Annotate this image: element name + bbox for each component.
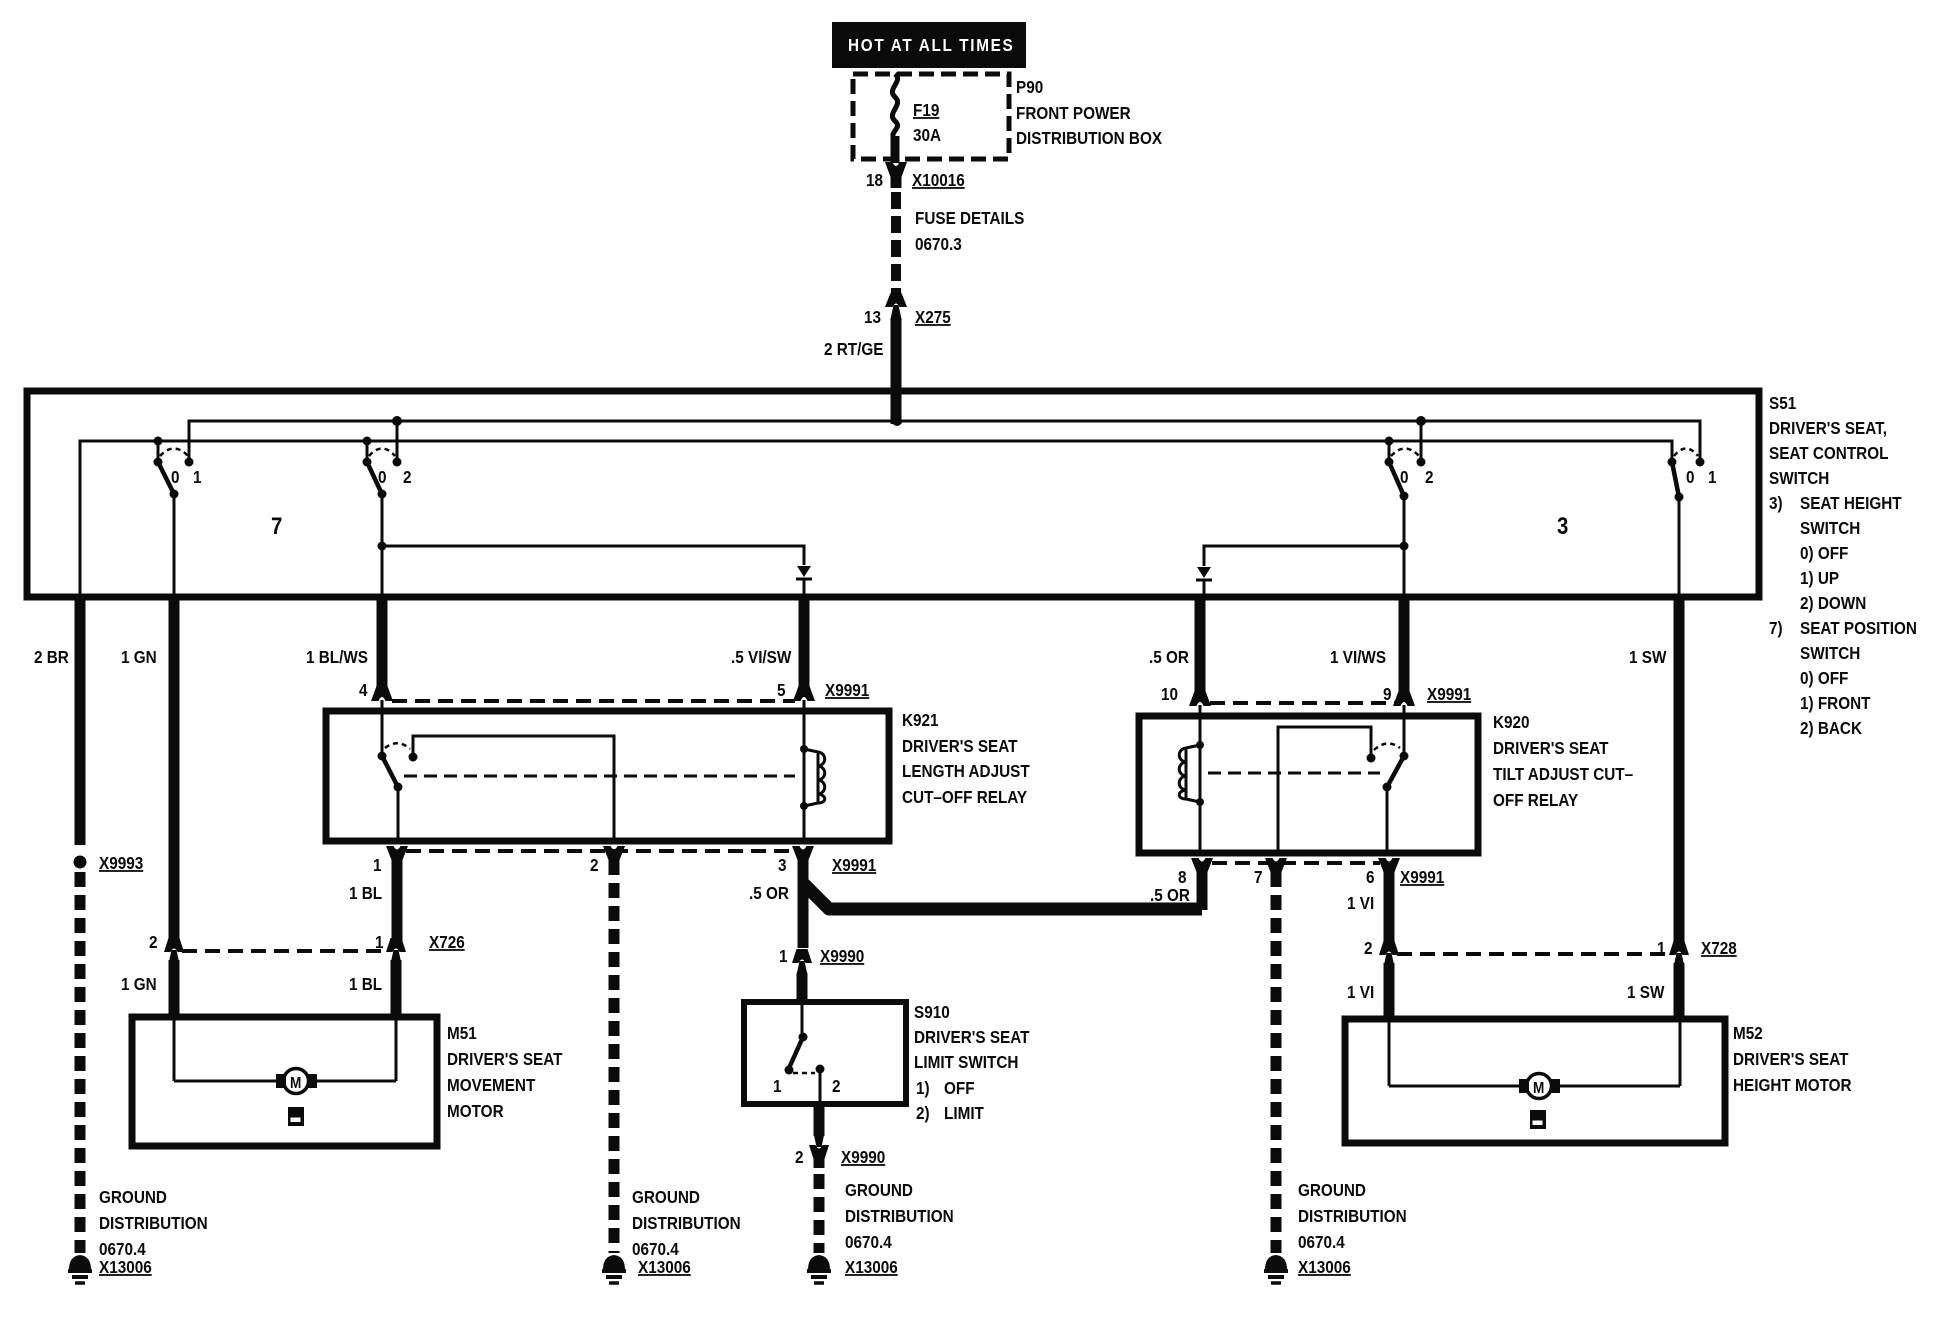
svg-text:2: 2 <box>590 855 599 875</box>
svg-text:1: 1 <box>1708 467 1717 487</box>
svg-text:.5 VI/SW: .5 VI/SW <box>731 647 792 667</box>
svg-text:0: 0 <box>1400 467 1409 487</box>
wire .5 OR cross-connect K921.3 to K920.8 <box>349 883 1202 909</box>
svg-text:SEAT HEIGHT: SEAT HEIGHT <box>1800 493 1902 513</box>
wire X9990.1 to S910 <box>797 973 808 1005</box>
svg-text:DISTRIBUTION: DISTRIBUTION <box>632 1213 741 1233</box>
svg-text:1 BL: 1 BL <box>349 883 382 903</box>
svg-text:CUT–OFF RELAY: CUT–OFF RELAY <box>902 787 1027 807</box>
limit switch S910 box <box>744 1002 906 1104</box>
svg-text:1 VI/WS: 1 VI/WS <box>1330 647 1386 667</box>
relay K921 actuation link (dashed) <box>404 775 795 778</box>
svg-text:13: 13 <box>864 307 881 327</box>
svg-text:2: 2 <box>1364 938 1373 958</box>
svg-text:3: 3 <box>1557 512 1568 539</box>
wire sw2 branch to diode <box>382 546 804 565</box>
connector X9990 pin 2 <box>795 1133 885 1167</box>
svg-text:GROUND: GROUND <box>1298 1180 1366 1200</box>
relay K920 actuation link (dashed) <box>1208 772 1380 775</box>
svg-text:DRIVER'S SEAT: DRIVER'S SEAT <box>447 1049 563 1069</box>
svg-text:6: 6 <box>1366 867 1375 887</box>
connector X728 pin 1 <box>1657 938 1737 967</box>
svg-text:S51: S51 <box>1769 393 1796 413</box>
wire S910 pin2 down <box>814 1104 825 1136</box>
svg-text:K921: K921 <box>902 710 939 730</box>
svg-text:SWITCH: SWITCH <box>1769 468 1829 488</box>
wire 1 VI lower <box>1347 963 1389 1022</box>
motor M51 <box>174 1020 396 1126</box>
connector X9991 pin 6 <box>1347 858 1444 948</box>
wire X726 dashed link <box>182 949 388 953</box>
node sw2 branch <box>378 542 387 551</box>
svg-text:2) DOWN: 2) DOWN <box>1800 593 1866 613</box>
svg-text:DRIVER'S SEAT: DRIVER'S SEAT <box>902 736 1018 756</box>
wire X9991 dashed link 10-9 <box>1210 701 1395 705</box>
svg-text:0: 0 <box>171 467 180 487</box>
relay K920 box <box>1139 716 1478 853</box>
svg-text:1: 1 <box>773 1076 782 1096</box>
svg-text:1 VI: 1 VI <box>1347 982 1374 1002</box>
svg-text:1: 1 <box>779 946 788 966</box>
svg-text:DRIVER'S SEAT,: DRIVER'S SEAT, <box>1769 418 1887 438</box>
connector X10016 pin 18 (female fork) <box>866 162 965 190</box>
svg-text:1 GN: 1 GN <box>121 974 157 994</box>
wire K920 pin7 ground (dashed) <box>1271 872 1282 1253</box>
wire S910 ground (dashed) <box>814 1157 825 1253</box>
diode (one-way) right <box>1196 567 1212 597</box>
relay K921 box <box>326 711 889 841</box>
svg-text:X13006: X13006 <box>845 1257 898 1277</box>
svg-text:4: 4 <box>359 680 368 700</box>
svg-text:1) UP: 1) UP <box>1800 568 1839 588</box>
connector X275 pin 13 (male arrow) <box>864 293 951 327</box>
svg-text:X13006: X13006 <box>638 1257 691 1277</box>
motor M52 box <box>1345 1019 1725 1143</box>
svg-text:2: 2 <box>149 932 158 952</box>
svg-text:7: 7 <box>271 512 282 539</box>
svg-text:SWITCH: SWITCH <box>1800 643 1860 663</box>
wire 1 BL lower <box>349 960 396 1020</box>
svg-text:LENGTH ADJUST: LENGTH ADJUST <box>902 761 1030 781</box>
switch S51.7 position switch pole B <box>363 421 412 597</box>
svg-text:OFF RELAY: OFF RELAY <box>1493 790 1578 810</box>
svg-text:2 RT/GE: 2 RT/GE <box>824 339 883 359</box>
component label S910 <box>914 1002 1030 1123</box>
relay K921 coil <box>800 745 825 838</box>
node line2-sw2 <box>363 437 372 446</box>
component label S51 legend <box>1769 393 1917 738</box>
svg-text:LIMIT: LIMIT <box>944 1103 985 1123</box>
wire 2 BR <box>34 594 80 845</box>
svg-text:3): 3) <box>1769 493 1783 513</box>
svg-text:FUSE DETAILS: FUSE DETAILS <box>915 208 1024 228</box>
svg-text:SWITCH: SWITCH <box>1800 518 1860 538</box>
svg-text:DISTRIBUTION BOX: DISTRIBUTION BOX <box>1016 128 1162 148</box>
svg-text:30A: 30A <box>913 125 941 145</box>
svg-text:7): 7) <box>1769 618 1783 638</box>
wire X728 dashed link <box>1397 952 1671 956</box>
wire 2 BR ground (dashed) <box>75 872 86 1253</box>
svg-text:HEIGHT MOTOR: HEIGHT MOTOR <box>1733 1075 1852 1095</box>
svg-text:MOTOR: MOTOR <box>447 1101 504 1121</box>
bus wire line2 (ground return) <box>80 441 1672 597</box>
svg-text:18: 18 <box>866 170 883 190</box>
svg-text:1 SW: 1 SW <box>1627 982 1665 1002</box>
svg-text:X726: X726 <box>429 932 465 952</box>
wire X9991 dashed link 4-5 <box>392 699 795 703</box>
motor M51 box <box>132 1017 437 1146</box>
ground symbol 2BR column <box>68 1255 92 1283</box>
svg-text:HOT AT ALL TIMES: HOT AT ALL TIMES <box>848 35 1014 55</box>
svg-text:X13006: X13006 <box>1298 1257 1351 1277</box>
switch S51.7 position switch pole A <box>154 441 202 597</box>
power source label HOT AT ALL TIMES <box>832 22 1026 68</box>
svg-text:.5 OR: .5 OR <box>1149 647 1189 667</box>
svg-text:5: 5 <box>777 680 786 700</box>
svg-text:1: 1 <box>373 855 382 875</box>
svg-text:M52: M52 <box>1733 1023 1763 1043</box>
svg-text:X9990: X9990 <box>841 1147 885 1167</box>
svg-text:SEAT POSITION: SEAT POSITION <box>1800 618 1917 638</box>
switch S910 blade <box>773 1005 841 1101</box>
ground symbol S910 column <box>807 1255 831 1283</box>
svg-text:X275: X275 <box>915 307 951 327</box>
svg-text:SEAT CONTROL: SEAT CONTROL <box>1769 443 1888 463</box>
svg-text:FRONT POWER: FRONT POWER <box>1016 103 1131 123</box>
svg-text:GROUND: GROUND <box>99 1187 167 1207</box>
connector X9991 pin 4 <box>359 680 393 756</box>
svg-text:0) OFF: 0) OFF <box>1800 668 1848 688</box>
svg-text:1 GN: 1 GN <box>121 647 157 667</box>
connector X9991 pin 10 <box>1161 684 1211 745</box>
connector X9991 pin 1 <box>373 846 408 945</box>
svg-text:1: 1 <box>193 467 202 487</box>
svg-text:2 BR: 2 BR <box>34 647 69 667</box>
switch S51.3 height switch pole A <box>1385 421 1434 597</box>
wire 1 SW <box>1629 594 1679 947</box>
wire 1 GN upper <box>121 594 174 945</box>
connector X9991 pin 2 <box>590 846 625 875</box>
svg-text:X9991: X9991 <box>832 855 876 875</box>
wire 1 VI/WS <box>1330 594 1404 693</box>
svg-text:M51: M51 <box>447 1023 477 1043</box>
svg-text:3: 3 <box>778 855 787 875</box>
svg-text:2: 2 <box>795 1147 804 1167</box>
relay K921 NC contact <box>378 743 418 838</box>
svg-text:M: M <box>1533 1080 1544 1097</box>
svg-text:1) FRONT: 1) FRONT <box>1800 693 1871 713</box>
svg-text:S910: S910 <box>914 1002 950 1022</box>
svg-text:1 SW: 1 SW <box>1629 647 1667 667</box>
wire 1 SW lower <box>1627 963 1679 1022</box>
component label K921 <box>902 710 1030 807</box>
connector X9990 pin 1 <box>779 946 864 975</box>
ground label column D <box>1298 1180 1407 1277</box>
component label M51 <box>447 1023 563 1121</box>
connector X9993 <box>74 853 144 873</box>
svg-text:X9991: X9991 <box>1427 684 1471 704</box>
svg-text:7: 7 <box>1254 867 1263 887</box>
component label K920 <box>1493 712 1633 810</box>
svg-text:1): 1) <box>916 1078 930 1098</box>
node line2-sw3 <box>1385 437 1394 446</box>
connector X728 pin 2 <box>1364 938 1399 967</box>
wire .5 OR upper <box>1149 594 1200 693</box>
connector X9991 pin 9 <box>1383 684 1471 756</box>
svg-text:LIMIT SWITCH: LIMIT SWITCH <box>914 1052 1018 1072</box>
node feed junction <box>892 416 902 426</box>
svg-text:DRIVER'S SEAT: DRIVER'S SEAT <box>914 1027 1030 1047</box>
wire sw3 branch to diode <box>1204 546 1404 566</box>
switch unit S51 box <box>27 391 1759 597</box>
P90 component label <box>1016 77 1162 148</box>
wire X9991 dashed link 8-6 <box>1212 861 1380 865</box>
bus wire line1 (power) <box>189 421 1700 462</box>
ground label column A <box>99 1187 208 1277</box>
svg-text:1 BL/WS: 1 BL/WS <box>306 647 368 667</box>
svg-text:M: M <box>290 1075 301 1092</box>
wire 1 BL/WS <box>306 594 382 688</box>
relay K920 NC contact <box>1367 743 1409 850</box>
svg-text:F19: F19 <box>913 100 939 120</box>
svg-text:P90: P90 <box>1016 77 1043 97</box>
connector X9991 pin 8 <box>1150 858 1213 910</box>
connector X9991 pin 5 <box>777 680 869 749</box>
svg-text:2: 2 <box>832 1076 841 1096</box>
wire 2 RT/GE feed <box>824 318 896 424</box>
fuse box P90 (dashed outline) <box>853 74 1009 159</box>
svg-text:DISTRIBUTION: DISTRIBUTION <box>845 1206 954 1226</box>
svg-text:2: 2 <box>1425 467 1434 487</box>
ground symbol K920 pin7 column <box>1264 1255 1288 1283</box>
connector X726 pin 1 <box>375 932 465 964</box>
svg-text:OFF: OFF <box>944 1078 975 1098</box>
node line1-sw3 <box>1416 416 1426 426</box>
svg-text:.5 OR: .5 OR <box>1150 885 1190 905</box>
svg-text:TILT ADJUST CUT–: TILT ADJUST CUT– <box>1493 764 1633 784</box>
motor M52 <box>1389 1022 1680 1129</box>
svg-text:DRIVER'S SEAT: DRIVER'S SEAT <box>1493 738 1609 758</box>
svg-text:X9990: X9990 <box>820 946 864 966</box>
svg-text:K920: K920 <box>1493 712 1530 732</box>
svg-text:10: 10 <box>1161 684 1178 704</box>
svg-text:X9993: X9993 <box>99 853 143 873</box>
connector X9991 pin 3 <box>778 846 876 948</box>
connector X726 pin 2 <box>149 932 184 964</box>
ground label column B <box>632 1187 741 1277</box>
fuse F19 30A <box>892 74 941 163</box>
connector X9991 pin 7 <box>1254 858 1287 887</box>
wire X9991 dashed link 1-3 <box>406 849 794 853</box>
svg-text:GROUND: GROUND <box>632 1187 700 1207</box>
svg-text:0670.3: 0670.3 <box>915 234 962 254</box>
ground symbol K921 pin2 column <box>602 1255 626 1283</box>
svg-text:0: 0 <box>1686 467 1695 487</box>
diode (one-way) left <box>796 566 812 597</box>
svg-text:1 BL: 1 BL <box>349 974 382 994</box>
svg-text:2): 2) <box>916 1103 930 1123</box>
svg-text:2: 2 <box>403 467 412 487</box>
svg-text:X13006: X13006 <box>99 1257 152 1277</box>
svg-text:.5 OR: .5 OR <box>749 883 789 903</box>
svg-text:DISTRIBUTION: DISTRIBUTION <box>1298 1206 1407 1226</box>
relay K920 coil <box>1179 741 1204 850</box>
switch S51.3 height switch pole B <box>1668 449 1717 598</box>
wire fuse details (dashed) <box>896 192 1024 302</box>
svg-text:X10016: X10016 <box>912 170 965 190</box>
node line1-sw2 <box>392 416 402 426</box>
node sw3 branch <box>1400 542 1409 551</box>
component label M52 <box>1733 1023 1852 1095</box>
svg-text:1 VI: 1 VI <box>1347 893 1374 913</box>
svg-text:X9991: X9991 <box>825 680 869 700</box>
svg-text:0) OFF: 0) OFF <box>1800 543 1848 563</box>
wire K921 pin2 ground (dashed) <box>609 860 620 1253</box>
svg-text:MOVEMENT: MOVEMENT <box>447 1075 536 1095</box>
svg-text:GROUND: GROUND <box>845 1180 913 1200</box>
node line2-sw1 <box>154 437 163 446</box>
svg-text:X9991: X9991 <box>1400 867 1444 887</box>
wire 1 GN lower <box>121 960 174 1020</box>
svg-text:2) BACK: 2) BACK <box>1800 718 1862 738</box>
wire K920 contact to pin 7 <box>1278 727 1371 850</box>
svg-text:0: 0 <box>378 467 387 487</box>
svg-text:0670.4: 0670.4 <box>845 1232 892 1252</box>
wire K921 contact to pin 2 <box>413 736 614 838</box>
svg-text:0670.4: 0670.4 <box>1298 1232 1345 1252</box>
svg-text:DRIVER'S SEAT: DRIVER'S SEAT <box>1733 1049 1849 1069</box>
svg-text:DISTRIBUTION: DISTRIBUTION <box>99 1213 208 1233</box>
svg-text:X728: X728 <box>1701 938 1737 958</box>
wire .5 VI/SW <box>731 594 804 688</box>
ground label column C <box>845 1180 954 1277</box>
